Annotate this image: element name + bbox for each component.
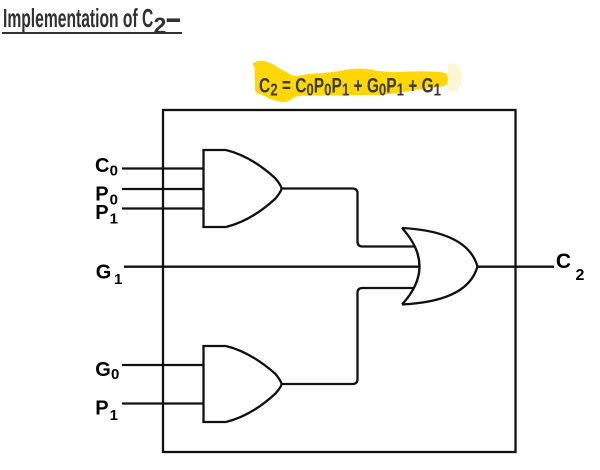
title: Implementation of C2 xyxy=(3,3,153,34)
wire P0 input xyxy=(122,188,204,190)
label C0 xyxy=(95,155,118,179)
label C2 output xyxy=(556,250,585,284)
label G1 xyxy=(96,261,123,288)
label G0 xyxy=(95,359,119,383)
wire G0 input xyxy=(122,364,204,366)
highlight pale tail xyxy=(448,64,462,93)
label P1b xyxy=(95,398,118,424)
svg-text:1: 1 xyxy=(110,407,118,424)
svg-text:P: P xyxy=(95,398,108,420)
title trailing dash xyxy=(167,18,180,22)
formula text C2 = C0P0P1 + G0P1 + G1 xyxy=(259,73,441,100)
wire C0 input xyxy=(122,167,204,169)
highlight marker blob xyxy=(253,61,449,102)
svg-text:G: G xyxy=(95,359,111,381)
svg-text:2: 2 xyxy=(576,267,585,284)
svg-text:P: P xyxy=(95,202,108,224)
wire U1 output to OR xyxy=(281,189,415,247)
svg-text:0: 0 xyxy=(110,163,118,180)
title underline xyxy=(2,32,182,35)
AND gate U2 bottom xyxy=(204,346,282,422)
svg-text:0: 0 xyxy=(110,192,118,209)
OR gate U3 xyxy=(402,228,478,305)
svg-text:C2 = C0P0P1 + G0P1 + G1: C2 = C0P0P1 + G0P1 + G1 xyxy=(259,73,441,100)
wire G1 input xyxy=(124,266,419,268)
svg-text:0: 0 xyxy=(111,366,119,383)
svg-text:C: C xyxy=(556,250,571,273)
svg-text:1: 1 xyxy=(110,211,118,228)
label P1 xyxy=(95,202,118,228)
enclosure box xyxy=(163,110,516,452)
svg-text:2: 2 xyxy=(154,12,167,38)
label P0 xyxy=(95,183,118,208)
wire P1 input xyxy=(122,207,204,209)
wire C2 output xyxy=(477,266,554,268)
wire U2 output to OR xyxy=(281,288,415,384)
AND gate U1 top xyxy=(204,150,282,227)
svg-text:1: 1 xyxy=(114,271,122,288)
svg-text:G: G xyxy=(96,261,112,283)
svg-text:C: C xyxy=(95,155,109,177)
wire P1 bottom input xyxy=(122,402,204,404)
